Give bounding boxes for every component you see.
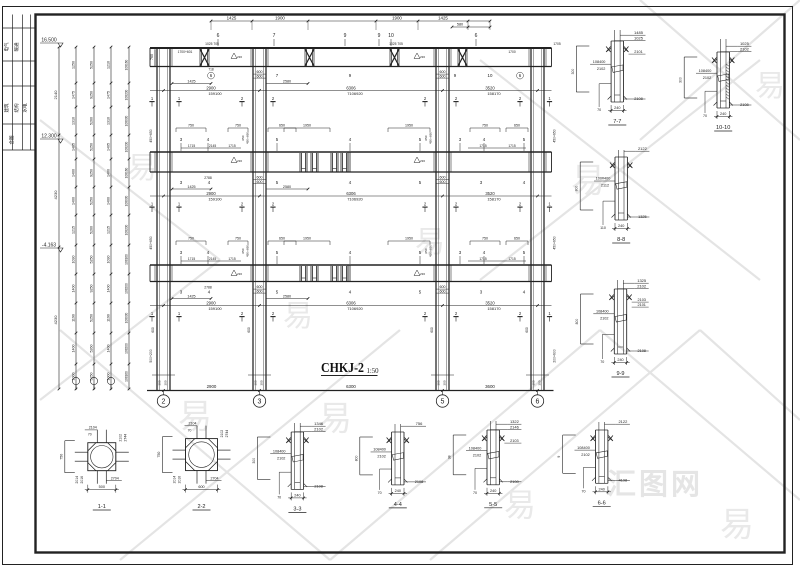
svg-text:650: 650 [279,237,285,241]
sub dim 1425 level 1 [172,83,211,85]
svg-text:3520: 3520 [485,85,495,90]
detail 2-2 bottom dim [185,485,187,493]
svg-text:1025 705: 1025 705 [205,42,219,46]
svg-text:1425: 1425 [187,185,195,189]
svg-text:2014: 2014 [173,476,177,484]
svg-text:1425: 1425 [187,79,195,83]
svg-text:2102: 2102 [220,430,224,438]
svg-text:1400: 1400 [106,285,110,293]
svg-text:电气: 电气 [3,42,9,51]
svg-text:200+600: 200+600 [553,349,557,362]
svg-text:6306: 6306 [346,300,356,305]
svg-text:756: 756 [416,421,423,426]
svg-text:108200: 108200 [124,141,128,152]
detail 8-8 section strip [617,150,619,220]
svg-text:易: 易 [318,400,352,438]
svg-text:240: 240 [614,106,620,110]
svg-text:4230: 4230 [53,315,58,325]
svg-text:580: 580 [457,23,463,27]
svg-text:300: 300 [571,69,575,75]
svg-text:2140: 2140 [53,90,58,100]
svg-text:1705: 1705 [553,42,561,46]
svg-text:240: 240 [490,489,496,493]
svg-text:450+650: 450+650 [429,245,433,257]
main dim line level 2 [150,195,552,197]
detail 3-3 bottom dim [290,492,292,500]
svg-text:1400: 1400 [106,169,110,177]
svg-text:800: 800 [575,186,579,192]
svg-text:1475: 1475 [106,91,110,99]
svg-text:300: 300 [260,380,264,385]
detail 4-4 extent bracket [359,437,361,475]
detail 7-7 flare marks [607,48,612,52]
svg-text:1715: 1715 [188,144,196,148]
svg-text:300: 300 [443,380,447,385]
svg-text:9250: 9250 [89,285,93,293]
svg-text:1950: 1950 [303,237,311,241]
svg-text:2101: 2101 [637,303,645,307]
svg-text:1210: 1210 [106,61,110,69]
svg-text:450+650: 450+650 [149,129,153,142]
svg-text:108160: 108160 [124,59,128,70]
svg-text:650: 650 [514,237,520,241]
svg-text:CHKJ-2: CHKJ-2 [321,360,364,375]
small dims under digits level 2 [181,147,202,149]
svg-text:300: 300 [252,458,256,464]
svg-text:10-10: 10-10 [716,125,730,131]
svg-text:2744: 2744 [225,430,229,438]
svg-text:1405: 1405 [71,143,75,151]
svg-text:70: 70 [88,433,92,437]
svg-text:12.300: 12.300 [41,134,57,140]
detail 6-6 bottom dim [595,486,597,494]
svg-text:1425: 1425 [187,294,195,298]
svg-text:2146: 2146 [510,425,520,430]
ground line [147,390,554,392]
svg-text:108160: 108160 [124,254,128,265]
svg-text:236: 236 [237,55,242,59]
svg-text:1025: 1025 [740,41,750,46]
detail 10-10 flare marks [713,59,718,63]
sub dim 1425 level 3 [172,298,211,300]
svg-text:108160: 108160 [124,167,128,178]
svg-text:1715: 1715 [228,144,236,148]
svg-text:-4.163: -4.163 [42,243,56,249]
svg-text:2122: 2122 [638,146,648,151]
grid bubbles [163,391,165,396]
svg-text:1025: 1025 [634,36,644,41]
svg-text:7106920: 7106920 [347,91,363,96]
detail 3-3 leader [279,471,291,473]
svg-text:800: 800 [354,456,358,462]
svg-text:236: 236 [420,272,425,276]
svg-text:108400: 108400 [469,446,482,450]
svg-text:70: 70 [277,495,281,499]
svg-text:600: 600 [440,74,446,78]
level2 stiffener boxes [299,153,301,172]
detail 1-1 corner ties [88,443,96,451]
detail 1-1 octagon [88,443,116,471]
svg-text:2145: 2145 [209,144,217,148]
svg-text:7-7: 7-7 [613,119,621,125]
svg-text:6306: 6306 [346,85,356,90]
svg-text:108400: 108400 [273,449,286,453]
svg-text:70: 70 [703,114,707,118]
svg-text:240: 240 [617,358,623,362]
detail 5-5 extent bracket [452,435,454,475]
svg-text:9: 9 [378,33,381,39]
svg-text:240: 240 [599,488,605,492]
svg-text:650: 650 [514,124,520,128]
svg-text:易: 易 [178,398,212,436]
svg-text:600: 600 [525,327,529,333]
svg-text:9-9: 9-9 [616,371,624,377]
svg-text:1190: 1190 [71,314,75,322]
svg-text:1715: 1715 [479,257,487,261]
svg-text:3520: 3520 [485,300,495,305]
svg-text:1400: 1400 [71,345,75,353]
svg-text:6: 6 [217,33,220,39]
title strip cells [12,15,14,151]
svg-text:1715: 1715 [508,257,516,261]
svg-text:易: 易 [283,300,313,333]
svg-text:2102: 2102 [637,284,647,289]
svg-text:108030: 108030 [124,312,128,323]
svg-text:70: 70 [600,360,604,364]
svg-text:2112: 2112 [601,184,609,188]
sub dim bay2 level 3 [266,298,308,300]
detail 2-2 stubs [196,426,198,439]
level3 stiffener boxes [299,266,301,281]
svg-text:2580: 2580 [283,79,291,83]
svg-text:5250: 5250 [89,256,93,264]
svg-text:5: 5 [441,399,445,406]
svg-text:易: 易 [127,152,157,185]
svg-text:600: 600 [198,485,204,489]
svg-text:6-6: 6-6 [598,500,606,506]
svg-text:1030: 1030 [106,256,110,264]
svg-text:600: 600 [151,327,155,333]
svg-text:450+650: 450+650 [149,236,153,249]
svg-text:650: 650 [424,248,428,253]
svg-text:2016: 2016 [178,476,182,484]
svg-text:750: 750 [59,454,63,460]
svg-text:8-8: 8-8 [617,237,625,243]
svg-text:450+650: 450+650 [553,236,557,249]
svg-text:600: 600 [257,74,263,78]
svg-text:300: 300 [158,380,162,385]
svg-text:300: 300 [254,380,258,385]
column 3 [252,48,254,391]
svg-text:1425: 1425 [227,16,237,21]
svg-text:2744: 2744 [123,434,127,442]
svg-text:600: 600 [257,289,263,293]
svg-text:5250: 5250 [89,197,93,205]
svg-text:2102: 2102 [597,67,605,71]
svg-text:1715: 1715 [508,144,516,148]
detail 2-2 section square [186,439,218,471]
svg-text:2101: 2101 [634,50,642,54]
svg-text:3: 3 [258,399,262,406]
svg-text:2580: 2580 [283,185,291,189]
svg-text:6300: 6300 [346,384,356,389]
svg-text:9250: 9250 [89,169,93,177]
svg-text:108400: 108400 [577,446,590,450]
svg-text:10: 10 [388,33,394,39]
svg-text:2102: 2102 [740,47,750,52]
svg-text:750: 750 [157,452,161,458]
svg-text:70: 70 [188,429,192,433]
svg-text:2016: 2016 [80,476,84,484]
svg-text:2145: 2145 [209,257,217,261]
svg-text:2103: 2103 [637,298,645,302]
svg-text:1030: 1030 [71,256,75,264]
detail 1-1 stubs [96,430,98,443]
sub dim bay2 level 1 [266,83,308,85]
svg-text:2122: 2122 [618,419,628,424]
detail 2-2 octagon [186,439,218,471]
svg-text:1400: 1400 [71,169,75,177]
svg-text:450+650: 450+650 [246,132,250,144]
svg-text:70: 70 [597,108,601,112]
svg-text:500+200: 500+200 [149,349,153,362]
detail 7-7 extent bracket [575,46,577,92]
svg-text:5250: 5250 [89,143,93,151]
svg-text:600: 600 [247,327,251,333]
svg-text:7106920: 7106920 [347,306,363,311]
svg-text:1310: 1310 [71,117,75,125]
svg-text:70: 70 [473,491,477,495]
svg-text:240: 240 [720,112,726,116]
svg-text:750: 750 [482,124,488,128]
svg-text:2102: 2102 [473,453,481,457]
svg-text:易: 易 [504,487,536,523]
detail 6-6 section strip [598,422,600,483]
svg-text:1715: 1715 [188,257,196,261]
svg-text:158170: 158170 [487,196,501,201]
svg-text:1950: 1950 [405,124,413,128]
svg-text:38: 38 [448,455,452,459]
svg-text:2: 2 [162,399,166,406]
svg-text:1346: 1346 [314,421,324,426]
column 6 [530,48,532,391]
svg-text:750: 750 [482,237,488,241]
detail 9-9 leader [602,334,614,336]
svg-text:600: 600 [257,180,263,184]
detail 2-2 corner ties [186,439,195,448]
floor beam level3 [150,264,552,266]
svg-text:108400: 108400 [593,60,606,64]
svg-text:2102: 2102 [277,456,285,460]
svg-text:5-5: 5-5 [489,502,497,508]
svg-text:300: 300 [532,380,536,385]
svg-text:1950: 1950 [405,237,413,241]
watermark glyphs [127,70,785,544]
svg-text:650: 650 [241,248,245,253]
weld triangle marks [231,53,237,59]
svg-text:1485: 1485 [634,30,644,35]
svg-text:1215: 1215 [106,226,110,234]
svg-text:108030: 108030 [124,115,128,126]
svg-text:450+650: 450+650 [246,245,250,257]
roof splices [199,49,201,66]
detail 10-10 bottom dim [716,111,718,119]
detail 2-2 bracket [162,437,164,473]
svg-text:750: 750 [235,237,241,241]
detail 10-10 extent bracket [683,57,685,98]
svg-text:4-4: 4-4 [394,502,402,508]
sub dim bay2 level 2 [266,188,308,190]
svg-text:236: 236 [420,159,425,163]
svg-text:1250: 1250 [71,61,75,69]
svg-text:1700: 1700 [508,50,516,54]
svg-text:159100: 159100 [208,306,222,311]
svg-text:9: 9 [344,33,347,39]
svg-text:2102: 2102 [377,455,385,459]
detail 7-7 leader [599,83,611,85]
svg-text:450+650: 450+650 [429,132,433,144]
svg-text:2104: 2104 [89,426,97,430]
svg-text:1900: 1900 [392,16,402,21]
svg-text:结构: 结构 [13,103,20,112]
detail 6-6 flare marks [591,437,596,441]
svg-text:1950: 1950 [303,124,311,128]
svg-text:108200: 108200 [124,224,128,235]
svg-text:1400: 1400 [71,285,75,293]
svg-text:6: 6 [475,33,478,39]
svg-text:300: 300 [164,380,168,385]
svg-text:800: 800 [575,319,579,325]
detail 1-1 section square [88,443,116,471]
svg-text:108200: 108200 [124,343,128,354]
main dim line level 3 [150,305,552,307]
svg-text:240: 240 [395,489,401,493]
svg-text:750: 750 [188,237,194,241]
svg-text:158170: 158170 [487,91,501,96]
detail 5-5 section strip [489,421,491,485]
svg-text:110: 110 [600,226,606,230]
detail 4-4 flare marks [387,439,392,443]
column 2 [156,48,158,391]
detail 10-10 leader [705,90,717,92]
svg-text:650: 650 [279,124,285,128]
svg-text:600: 600 [440,180,446,184]
svg-text:2014: 2014 [75,476,79,484]
detail 10-10 section strip [719,39,721,108]
detail 6-6 leader [584,466,596,468]
svg-text:易: 易 [755,70,785,103]
svg-text:600: 600 [440,289,446,293]
svg-text:650: 650 [241,135,245,140]
svg-text:2788: 2788 [204,286,212,290]
detail 9-9 section strip [617,280,619,354]
svg-text:1325: 1325 [637,278,647,283]
svg-text:合图: 合图 [8,135,15,144]
svg-text:2103: 2103 [510,439,518,443]
svg-text:1215: 1215 [71,226,75,234]
svg-text:236: 236 [237,159,242,163]
svg-text:70: 70 [582,489,586,493]
svg-text:159100: 159100 [208,196,222,201]
svg-text:2788: 2788 [204,176,212,180]
detail 8-8 bottom dim [614,223,616,231]
svg-text:1190: 1190 [106,314,110,322]
svg-text:2900: 2900 [206,191,216,196]
svg-text:236: 236 [420,55,425,59]
svg-text:2704: 2704 [211,477,219,481]
svg-text:236: 236 [237,272,242,276]
detail 9-9 bottom dim [613,357,615,365]
svg-text:9250: 9250 [89,91,93,99]
left dimension chains [58,47,60,389]
svg-text:2-2: 2-2 [197,504,205,510]
roof beam [150,47,552,49]
detail 5-5 bottom dim [486,488,488,496]
svg-text:100#400: 100#400 [596,177,611,181]
svg-text:760: 760 [150,54,154,60]
svg-text:5260: 5260 [89,345,93,353]
svg-text:1475: 1475 [71,91,75,99]
svg-text:1700+601: 1700+601 [178,50,193,54]
svg-text:108400: 108400 [596,310,609,314]
detail 3-3 section strip [294,423,296,489]
svg-text:1400: 1400 [106,345,110,353]
svg-text:450+650: 450+650 [553,129,557,142]
svg-text:240: 240 [294,494,300,498]
sub dim 1425 level 2 [172,188,211,190]
svg-text:暖通: 暖通 [13,42,20,51]
svg-text:10: 10 [488,73,493,78]
svg-text:2102: 2102 [600,317,608,321]
svg-text:718: 718 [208,68,214,72]
svg-text:750: 750 [235,124,241,128]
svg-text:1322: 1322 [510,419,520,424]
svg-text:2102: 2102 [314,427,324,432]
top dimension row [211,20,490,22]
svg-text:1400: 1400 [106,197,110,205]
svg-text:108200: 108200 [124,283,128,294]
svg-text:16.500: 16.500 [41,38,57,44]
svg-text:750: 750 [188,124,194,128]
svg-text:108400: 108400 [699,69,712,73]
svg-text:1715: 1715 [228,257,236,261]
detail 6-6 extent bracket [562,435,564,473]
svg-text:300: 300 [538,380,542,385]
detail 4-4 leader [380,468,392,470]
svg-text:108030: 108030 [124,195,128,206]
detail 3-3 extent bracket [256,437,258,479]
svg-text:5260: 5260 [89,117,93,125]
svg-text:1405: 1405 [106,143,110,151]
svg-text:1900: 1900 [275,16,285,21]
svg-text:2900: 2900 [206,85,216,90]
svg-text:7: 7 [273,33,276,39]
svg-text:158170: 158170 [487,306,501,311]
detail 8-8 flare marks [611,164,616,168]
small dims under digits level 3 [181,260,202,262]
left chain bubbles [72,377,79,384]
svg-text:3600: 3600 [485,384,495,389]
svg-text:易: 易 [720,506,754,544]
svg-text:水电: 水电 [22,103,28,112]
detail 4-4 section strip [394,424,396,485]
detail 4-4 bottom dim [391,488,393,496]
svg-text:2900: 2900 [206,300,216,305]
svg-text:1400: 1400 [71,197,75,205]
svg-text:300: 300 [679,77,683,83]
detail 1-1 bracket [64,441,66,473]
rebar annotation above beam 3 [176,240,206,242]
